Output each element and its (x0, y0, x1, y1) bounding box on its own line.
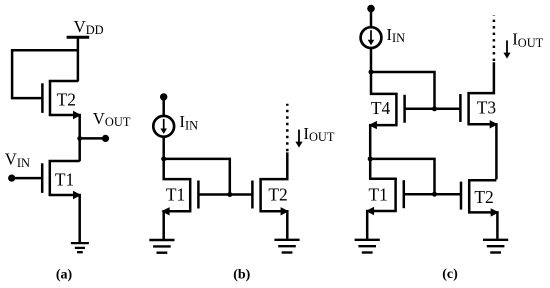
wire (198, 193, 252, 196)
wire (367, 211, 397, 239)
wire (370, 9, 373, 27)
wire (12, 177, 43, 180)
wire (49, 115, 80, 138)
source arrow T4 (369, 121, 377, 129)
svg-text:(a): (a) (56, 268, 73, 283)
ground (274, 240, 299, 253)
svg-text:(c): (c) (442, 267, 458, 282)
junction VOUT (77, 136, 82, 141)
wire (370, 125, 397, 159)
svg-text:T2: T2 (268, 184, 287, 204)
junction (161, 156, 166, 161)
wire (162, 97, 165, 116)
transistor T3 (460, 93, 468, 124)
svg-text:T2: T2 (474, 187, 493, 207)
arrow IOUT (295, 130, 302, 148)
wire (162, 137, 165, 159)
junction gate T1/T2 (432, 192, 437, 197)
wire (259, 152, 287, 179)
arrow IOUT (503, 40, 510, 58)
wire (404, 193, 461, 196)
terminal IIN (367, 5, 375, 13)
svg-text:IOUT: IOUT (512, 30, 543, 50)
wire (371, 72, 398, 94)
wire (77, 37, 80, 81)
current source IIN (153, 116, 174, 137)
svg-text:VDD: VDD (74, 17, 104, 37)
source arrow T2 (491, 208, 499, 216)
wire (370, 49, 373, 73)
wire (370, 159, 397, 179)
power rail VDD (67, 36, 90, 39)
wire (164, 211, 192, 239)
svg-text:VIN: VIN (5, 150, 30, 170)
wire (467, 62, 494, 93)
wire (468, 179, 496, 182)
svg-text:T1: T1 (369, 185, 388, 205)
junction (368, 156, 373, 161)
transistor T1 (190, 179, 198, 211)
wire (370, 159, 434, 194)
ground (149, 240, 174, 253)
transistor T4 (396, 93, 404, 124)
svg-text:IIN: IIN (179, 112, 198, 132)
wire (49, 80, 78, 83)
svg-text:T1: T1 (166, 184, 185, 204)
transistor T1 (42, 160, 50, 195)
terminal IIN (160, 93, 167, 100)
transistor T2 (461, 180, 469, 212)
ground (71, 243, 89, 252)
wire IOUT dotted (286, 104, 289, 151)
wire (12, 50, 78, 98)
wire (468, 212, 497, 238)
wire (80, 137, 105, 140)
svg-text:IIN: IIN (386, 25, 405, 45)
terminal VOUT (102, 135, 109, 142)
junction (369, 70, 374, 75)
wire (78, 138, 81, 161)
svg-text:VOUT: VOUT (93, 109, 131, 129)
junction gate (227, 192, 232, 197)
source arrow T3 (490, 120, 498, 128)
terminal VIN (8, 175, 15, 182)
source arrow T2 (281, 207, 289, 215)
wire (164, 159, 230, 195)
wire (49, 195, 80, 242)
source arrow T1 (366, 207, 374, 215)
transistor T2 (252, 179, 260, 211)
current source IIN (361, 27, 382, 48)
transistor T2 (42, 80, 50, 115)
svg-text:T2: T2 (57, 89, 76, 109)
source arrow T1 (161, 207, 169, 215)
transistor T1 (396, 178, 404, 210)
wire (49, 160, 80, 163)
svg-text:IOUT: IOUT (303, 124, 334, 144)
ground (483, 240, 508, 253)
svg-text:T1: T1 (55, 169, 74, 189)
junction gate T4/T3 (432, 106, 437, 111)
source arrow T1 (73, 191, 81, 199)
wire (371, 72, 435, 109)
ground (355, 240, 380, 253)
svg-text:T3: T3 (477, 98, 497, 118)
wire (405, 108, 460, 111)
wire IOUT dotted (493, 15, 496, 61)
wire (467, 124, 496, 179)
svg-text:T4: T4 (371, 98, 391, 118)
svg-text:(b): (b) (233, 268, 250, 283)
wire (259, 211, 287, 239)
wire (164, 159, 192, 179)
source arrow T2 (73, 111, 81, 119)
